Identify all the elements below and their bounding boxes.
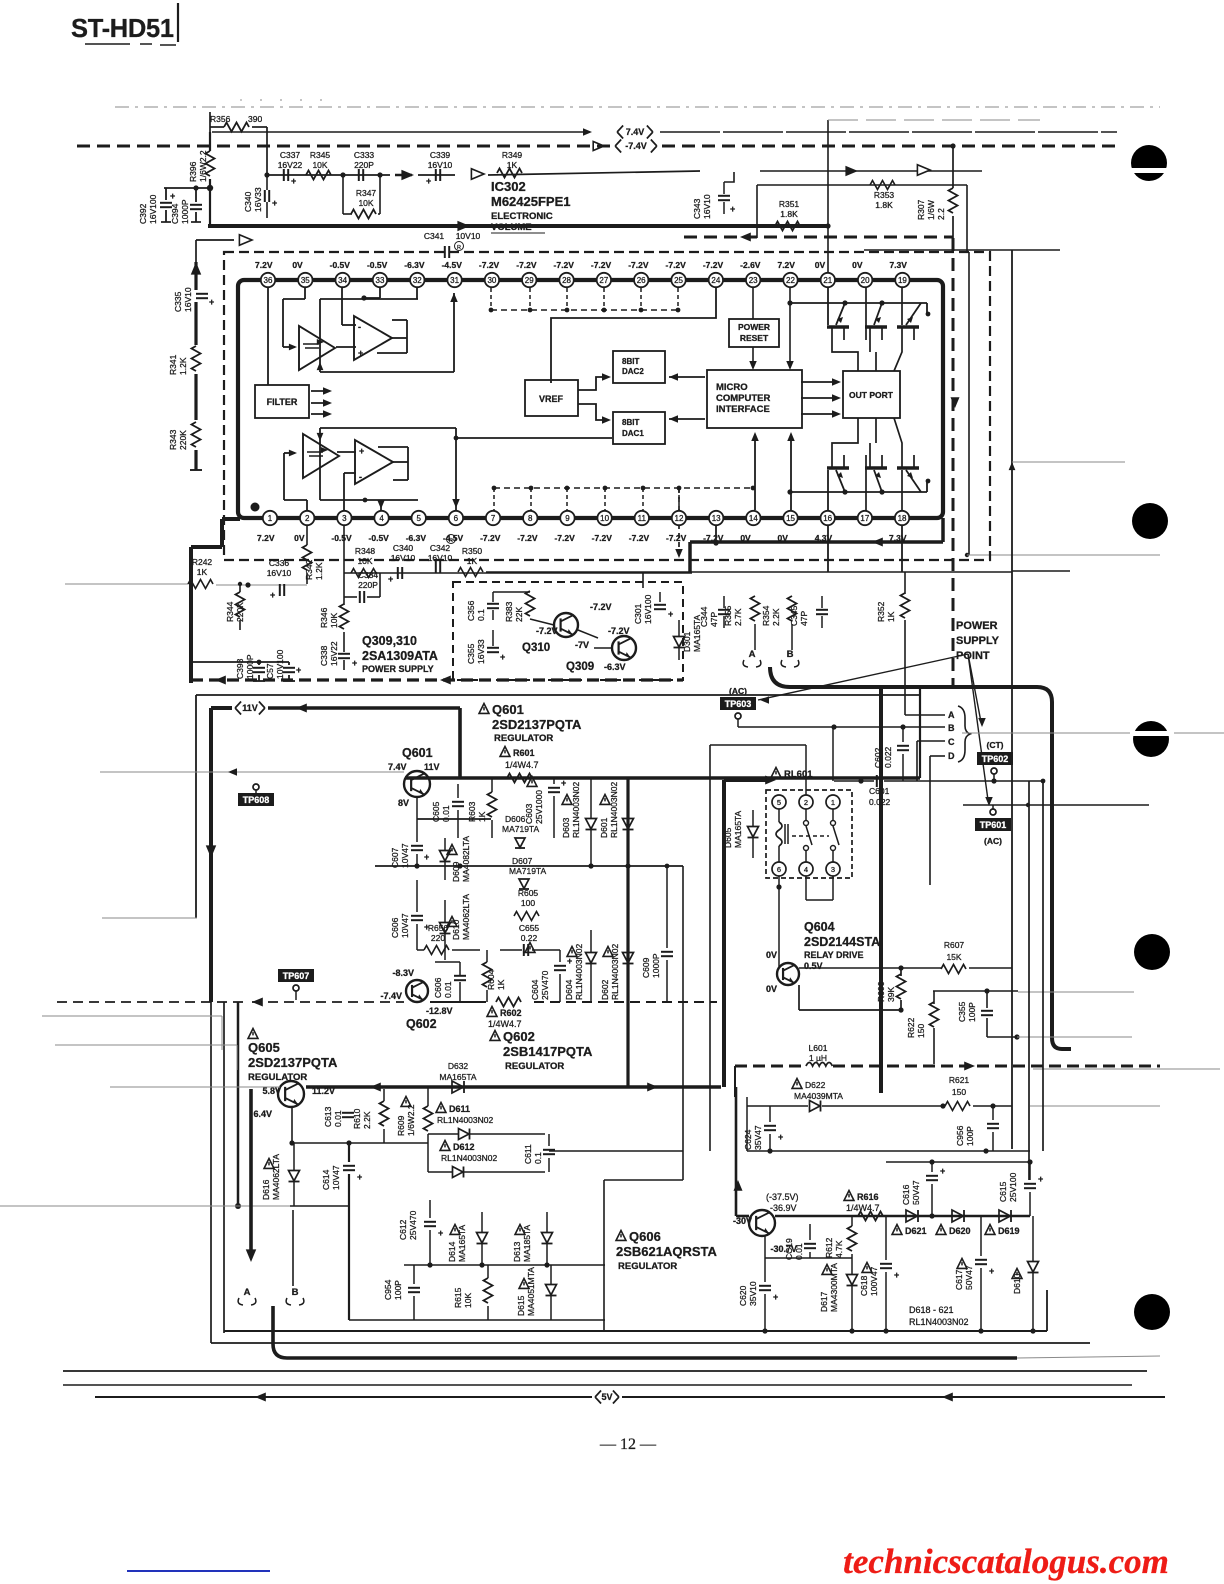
svg-text:FILTER: FILTER	[267, 397, 298, 407]
svg-text:R352: R352	[876, 601, 886, 622]
svg-text:-7.2V: -7.2V	[554, 533, 575, 543]
diode D601 RL1N4003N02	[600, 795, 610, 805]
wire DAC to MICRO	[669, 376, 705, 378]
wire VREF riser	[551, 287, 716, 383]
svg-text:-2.6V: -2.6V	[740, 260, 761, 270]
svg-text:R343: R343	[168, 429, 178, 450]
svg-text:R621: R621	[949, 1075, 970, 1085]
svg-text:390: 390	[248, 114, 262, 124]
registration mark	[1131, 145, 1167, 181]
svg-text:(-37.5V): (-37.5V)	[766, 1192, 799, 1202]
svg-text:C614: C614	[321, 1169, 331, 1190]
op-amp A2	[354, 316, 392, 360]
svg-text:0.22: 0.22	[521, 933, 538, 943]
wire pointer lines	[758, 654, 968, 700]
svg-text:2: 2	[305, 514, 310, 523]
svg-text:+: +	[894, 1270, 899, 1280]
svg-text:220: 220	[431, 933, 445, 943]
svg-text:D: D	[948, 751, 955, 761]
wire A line y715	[905, 714, 945, 716]
svg-text:ST-HD51: ST-HD51	[71, 15, 174, 43]
svg-text:-36.9V: -36.9V	[770, 1203, 797, 1213]
svg-text:B: B	[948, 723, 955, 733]
svg-text:R610: R610	[352, 1108, 362, 1129]
svg-text:100P: 100P	[965, 1126, 975, 1146]
svg-text:technicscatalogus.com: technicscatalogus.com	[843, 1542, 1169, 1581]
resistor R609 1/6W2.2	[401, 1097, 411, 1107]
svg-text:C334: C334	[358, 570, 379, 580]
svg-text:-7.2V: -7.2V	[590, 602, 612, 612]
svg-text:D606: D606	[505, 814, 526, 824]
diode D611 RL1N4003N02	[436, 1103, 446, 1113]
svg-text:19: 19	[898, 276, 907, 285]
pin 30	[485, 273, 499, 287]
flag 5V	[595, 1391, 601, 1404]
testpoint TP601	[990, 809, 996, 815]
pin 5 R mark	[447, 535, 456, 544]
svg-text:2SD2144STA: 2SD2144STA	[804, 935, 880, 949]
svg-text:C355: C355	[466, 643, 476, 664]
svg-text:1 µH: 1 µH	[809, 1053, 827, 1063]
svg-text:A: A	[749, 649, 756, 660]
svg-text:D621: D621	[905, 1226, 927, 1236]
pin 7	[486, 511, 500, 525]
svg-text:35V10: 35V10	[748, 1281, 758, 1306]
svg-text:C620: C620	[738, 1285, 748, 1306]
svg-text:0V: 0V	[294, 533, 305, 543]
svg-text:POWER: POWER	[738, 322, 770, 332]
svg-text:SUPPLY: SUPPLY	[956, 635, 1000, 647]
svg-text:50V47: 50V47	[911, 1180, 921, 1205]
pin 21	[821, 273, 835, 287]
transistor trio top	[790, 302, 927, 304]
svg-text:25V1000: 25V1000	[534, 790, 544, 824]
svg-text:+: +	[270, 590, 275, 600]
wire open arrow row2	[239, 235, 252, 246]
wire left bold rail upper	[209, 132, 211, 151]
svg-text:32: 32	[413, 276, 422, 285]
wire bold y778	[405, 776, 920, 780]
capacitor C604 25V470	[525, 943, 535, 953]
svg-text:1000P: 1000P	[651, 953, 661, 978]
svg-text:D611: D611	[449, 1104, 470, 1114]
svg-text:C344: C344	[699, 606, 709, 627]
wire bottom y1331	[224, 1330, 1047, 1332]
op-amp A1 variable	[299, 326, 335, 370]
svg-text:MA4039MTA: MA4039MTA	[794, 1091, 843, 1101]
svg-text:0V: 0V	[852, 260, 863, 270]
svg-text:D616: D616	[261, 1179, 271, 1200]
svg-text:Q601: Q601	[402, 746, 433, 760]
resistor R347 10K loop	[342, 175, 344, 214]
svg-text:+: +	[358, 348, 363, 358]
svg-text:2SB1417PQTA: 2SB1417PQTA	[503, 1044, 593, 1059]
svg-text:-7.2V: -7.2V	[591, 260, 612, 270]
svg-text:5: 5	[416, 514, 421, 523]
svg-text:D622: D622	[805, 1080, 826, 1090]
pin 35	[298, 273, 312, 287]
svg-text:16V10: 16V10	[702, 194, 712, 219]
svg-text:47P: 47P	[709, 612, 719, 627]
svg-text:+: +	[1038, 1174, 1043, 1184]
svg-text:25: 25	[674, 276, 683, 285]
svg-text:+: +	[359, 446, 364, 456]
svg-text:7.3V: 7.3V	[889, 260, 907, 270]
svg-text:22: 22	[786, 276, 795, 285]
pin 5	[412, 511, 426, 525]
svg-text:-7.2V: -7.2V	[703, 533, 724, 543]
svg-text:7: 7	[491, 514, 496, 523]
wire y991	[933, 990, 1018, 992]
svg-text:R348: R348	[355, 546, 376, 556]
wire left bold rail x191	[189, 547, 193, 683]
diode D615 MA4051MTA	[519, 1279, 529, 1289]
wire right rail x1012	[1011, 250, 1013, 1149]
svg-text:100V47: 100V47	[869, 1266, 879, 1296]
wire dashed bold y237	[684, 236, 953, 239]
svg-text:1K: 1K	[197, 567, 208, 577]
svg-text:D604: D604	[564, 979, 574, 1000]
wire relay bottom	[778, 876, 780, 887]
pin 2	[300, 511, 314, 525]
pin 29	[522, 273, 536, 287]
wire R356 to component row	[266, 127, 268, 175]
svg-text:ELECTRONIC: ELECTRONIC	[491, 211, 553, 222]
svg-text:16V100: 16V100	[643, 594, 653, 624]
registration mark	[1133, 721, 1169, 757]
svg-text:1.2K: 1.2K	[314, 562, 324, 580]
diode D621	[906, 1210, 917, 1222]
wire relay pin1 up	[832, 727, 834, 781]
svg-text:2SD2137PQTA: 2SD2137PQTA	[492, 717, 582, 732]
svg-text:16V10: 16V10	[267, 568, 292, 578]
wire bottom y1343	[211, 1342, 1090, 1344]
wire bottom feedback loop	[320, 427, 456, 429]
svg-text:R347: R347	[356, 188, 377, 198]
svg-text:15K: 15K	[946, 952, 961, 962]
svg-text:D601: D601	[599, 817, 609, 838]
svg-text:REGULATOR: REGULATOR	[494, 733, 553, 744]
svg-text:1000P: 1000P	[180, 199, 190, 224]
svg-text:C340: C340	[393, 543, 414, 553]
svg-text:25V100: 25V100	[1008, 1172, 1018, 1202]
svg-text:POWER SUPPLY: POWER SUPPLY	[362, 664, 434, 674]
Q605 inner box	[348, 1200, 350, 1320]
wire rail x224	[223, 1002, 225, 1333]
diode D617 MA4300MTA	[822, 1265, 832, 1275]
svg-text:16: 16	[823, 514, 832, 523]
svg-text:7.2V: 7.2V	[777, 260, 795, 270]
svg-text:R350: R350	[462, 546, 483, 556]
svg-text:Q604: Q604	[804, 920, 835, 934]
svg-text:0V: 0V	[778, 533, 789, 543]
svg-text:10K: 10K	[358, 198, 373, 208]
resistor R616 1/4W4.7	[844, 1191, 854, 1201]
wire dashed bottom power	[191, 678, 683, 681]
wire y1265	[404, 1264, 605, 1266]
svg-text:C956: C956	[955, 1125, 965, 1146]
svg-text:R656: R656	[428, 923, 449, 933]
svg-text:-7.2V: -7.2V	[517, 533, 538, 543]
svg-text:3: 3	[342, 514, 347, 523]
svg-text:0.01: 0.01	[333, 1110, 343, 1127]
svg-text:Q605: Q605	[248, 1040, 280, 1055]
svg-text:R344: R344	[225, 601, 235, 622]
wire bold rail y=226	[208, 224, 827, 228]
wire dashed row y1002	[57, 1001, 244, 1003]
svg-text:R345: R345	[310, 150, 331, 160]
svg-text:RL1N4003N02: RL1N4003N02	[609, 781, 619, 838]
svg-text:+: +	[778, 1132, 783, 1142]
wire to DAC1 from opamp	[456, 437, 612, 439]
svg-text:1/4W4.7: 1/4W4.7	[488, 1019, 522, 1029]
pin 33	[373, 273, 387, 287]
svg-text:2.2K: 2.2K	[362, 1111, 372, 1129]
svg-text:R602: R602	[500, 1008, 522, 1018]
svg-text:1/4W4.7: 1/4W4.7	[846, 1203, 880, 1213]
svg-text:-4.5V: -4.5V	[443, 533, 464, 543]
pin 3	[337, 511, 351, 525]
diode D612 RL1N4003N02	[440, 1141, 450, 1151]
Q605 2SD2137PQTA title	[248, 1029, 258, 1039]
svg-text:C343: C343	[692, 198, 702, 219]
pin 10	[597, 511, 611, 525]
svg-text:MA4082LTA: MA4082LTA	[461, 836, 471, 882]
FILTER box	[255, 385, 309, 418]
wire inner verticals ic	[640, 288, 642, 310]
svg-text:-7.2V: -7.2V	[703, 260, 724, 270]
svg-text:24: 24	[711, 276, 720, 285]
svg-text:IC302: IC302	[491, 179, 526, 194]
svg-text:RELAY DRIVE: RELAY DRIVE	[804, 950, 864, 960]
svg-text:7.4V: 7.4V	[388, 762, 407, 772]
svg-text:30: 30	[487, 276, 496, 285]
resistor R601 1/4W4.7	[500, 747, 510, 757]
svg-text:M62425FPE1: M62425FPE1	[491, 194, 571, 209]
svg-text:MA719TA: MA719TA	[509, 866, 546, 876]
svg-text:2SB621AQRSTA: 2SB621AQRSTA	[616, 1244, 718, 1259]
wire right top corner	[864, 249, 1060, 251]
svg-text:6: 6	[454, 514, 459, 523]
svg-text:+: +	[291, 176, 296, 186]
svg-text:9: 9	[565, 514, 570, 523]
svg-text:+: +	[209, 297, 214, 307]
wire bold left rail x211	[209, 708, 213, 1002]
wire pin16 drop	[827, 526, 829, 572]
svg-text:+: +	[352, 658, 357, 668]
wire A/B to bold bottom	[273, 1306, 1017, 1358]
wire gray y805	[963, 804, 1149, 806]
wire pin14 riser	[754, 436, 756, 510]
svg-text:1/4W4.7: 1/4W4.7	[505, 760, 539, 770]
svg-text:+: +	[296, 665, 301, 675]
pin 19	[895, 273, 909, 287]
svg-text:C607: C607	[390, 847, 400, 868]
wire Q606 left step	[549, 1150, 683, 1152]
svg-text:C606: C606	[390, 917, 400, 938]
svg-text:-0.5V: -0.5V	[367, 260, 388, 270]
svg-text:D301: D301	[682, 631, 692, 652]
svg-text:C355: C355	[957, 1001, 967, 1022]
svg-text:10V47: 10V47	[331, 1165, 341, 1190]
wire top faint rail	[115, 106, 1160, 108]
svg-text:29: 29	[525, 276, 534, 285]
pin 1	[263, 511, 277, 525]
VREF box	[525, 380, 578, 416]
svg-text:1/6W: 1/6W	[926, 200, 936, 220]
svg-text:RL1N4003N02: RL1N4003N02	[909, 1317, 969, 1327]
wire bold rail to A	[249, 1089, 253, 1250]
svg-text:-7.2V: -7.2V	[608, 626, 630, 636]
wire pin22 to MICRO	[789, 287, 791, 303]
svg-text:DAC2: DAC2	[622, 367, 644, 376]
pin 25	[671, 273, 685, 287]
svg-text:+: +	[500, 652, 505, 662]
svg-text:C335: C335	[173, 291, 183, 312]
svg-text:-7.2V: -7.2V	[628, 260, 649, 270]
capacitor C334 220P loop	[343, 573, 345, 597]
wire MICRO to OUT PORT arrows	[801, 381, 838, 383]
svg-text:0V: 0V	[766, 984, 777, 994]
svg-text:(AC): (AC)	[984, 836, 1002, 846]
svg-text:D618 - 621: D618 - 621	[909, 1305, 954, 1315]
flag -7.4V	[615, 140, 621, 153]
svg-text:RL1N4003N02: RL1N4003N02	[574, 943, 584, 1000]
wire C line y741	[917, 740, 945, 742]
svg-text:5: 5	[777, 798, 781, 807]
pin 24	[709, 273, 723, 287]
svg-text:7.4V: 7.4V	[626, 127, 645, 137]
svg-text:R346: R346	[319, 607, 329, 628]
svg-text:+: +	[438, 1228, 443, 1238]
wire y1162	[886, 1161, 1030, 1163]
svg-text:8BIT: 8BIT	[622, 418, 639, 427]
diode D616 MA4062LTA	[264, 1159, 274, 1169]
svg-text:1.8K: 1.8K	[780, 209, 798, 219]
svg-text:+: +	[989, 1266, 994, 1276]
regulator outer box	[196, 694, 920, 696]
resistor R602 1/4W4.7	[496, 998, 521, 1007]
wire bold y1087	[306, 1085, 721, 1089]
wire y1010	[798, 985, 800, 1010]
pin 15	[783, 511, 797, 525]
svg-text:POWER: POWER	[956, 620, 998, 632]
svg-text:16V33: 16V33	[253, 187, 263, 212]
svg-text:C603: C603	[524, 803, 534, 824]
svg-text:C624: C624	[743, 1129, 753, 1150]
Q601 2SD2137PQTA title	[479, 704, 489, 714]
Q602 2SB1417PQTA title	[490, 1031, 500, 1041]
wire B line y727	[738, 726, 945, 728]
svg-text:+: +	[668, 609, 673, 619]
svg-text:31: 31	[450, 276, 459, 285]
svg-text:-0.5V: -0.5V	[330, 260, 351, 270]
wire B riser	[292, 1210, 294, 1286]
svg-text:100P: 100P	[967, 1002, 977, 1022]
svg-text:-7.4V: -7.4V	[625, 141, 647, 151]
svg-text:R353: R353	[874, 190, 895, 200]
svg-text:0.1: 0.1	[476, 609, 486, 621]
svg-text:6.4V: 6.4V	[253, 1109, 272, 1119]
svg-text:Q602: Q602	[503, 1029, 535, 1044]
svg-text:25V470: 25V470	[408, 1210, 418, 1240]
wire y1151	[747, 1150, 1030, 1152]
svg-text:C611: C611	[523, 1144, 533, 1164]
pin 23	[746, 273, 760, 287]
svg-text:D602: D602	[600, 979, 610, 1000]
wire POWER RESET to MICRO	[752, 347, 754, 366]
wire bottom y1385	[63, 1384, 1132, 1386]
wire 11V bold	[211, 706, 232, 710]
pin 28	[559, 273, 573, 287]
8BIT DAC2 box	[613, 351, 665, 383]
wire bold x628 lower	[626, 866, 629, 1087]
wire pin1 staircase	[222, 517, 240, 521]
capacitor C603 25V1000	[527, 777, 537, 787]
diode D613 MA185TA	[515, 1225, 525, 1235]
capacitor C618 100V47	[862, 1263, 872, 1273]
svg-text:C618: C618	[859, 1275, 869, 1296]
8BIT DAC1 box	[613, 412, 665, 444]
svg-text:D612: D612	[453, 1142, 475, 1152]
svg-text:— 12 —: — 12 —	[599, 1436, 657, 1453]
svg-text:R601: R601	[513, 748, 535, 758]
svg-text:D620: D620	[949, 1226, 971, 1236]
svg-text:220K: 220K	[178, 430, 188, 450]
svg-text:0.5V: 0.5V	[804, 961, 823, 971]
svg-text:2SA1309ATA: 2SA1309ATA	[362, 649, 438, 663]
svg-text:MICRO: MICRO	[716, 382, 748, 393]
svg-text:+: +	[773, 1292, 778, 1302]
svg-text:B: B	[292, 1287, 299, 1298]
svg-text:3: 3	[831, 865, 835, 874]
wire pin15 riser	[790, 436, 792, 510]
op-amp B2 feedback box	[393, 461, 408, 463]
svg-text:33: 33	[376, 276, 385, 285]
svg-text:VREF: VREF	[539, 394, 564, 404]
wire y1258	[765, 1257, 852, 1259]
svg-text:11V: 11V	[424, 762, 440, 772]
svg-text:1/6W2.2: 1/6W2.2	[406, 1104, 416, 1136]
svg-text:11: 11	[638, 514, 647, 523]
svg-text:4.3V: 4.3V	[815, 533, 833, 543]
wire bold x724	[722, 780, 726, 1087]
wire bold rail x238	[237, 1002, 240, 1206]
svg-text:-12.8V: -12.8V	[426, 1006, 453, 1016]
svg-text:R615: R615	[453, 1287, 463, 1308]
svg-text:-7.2V: -7.2V	[666, 260, 687, 270]
svg-text:D610: D610	[1012, 1273, 1022, 1294]
svg-text:4.7K: 4.7K	[834, 1240, 844, 1258]
svg-text:R351: R351	[779, 199, 800, 209]
testpoint TP608	[253, 784, 259, 790]
svg-text:OUT PORT: OUT PORT	[849, 390, 894, 400]
svg-text:D632: D632	[448, 1061, 469, 1071]
svg-text:D615: D615	[516, 1295, 526, 1316]
flag 7.4V	[617, 126, 623, 139]
op-amp B2	[355, 440, 393, 484]
svg-text:-: -	[358, 322, 361, 332]
svg-text:+: +	[424, 852, 429, 862]
svg-text:A: A	[244, 1287, 251, 1298]
svg-text:-7.2V: -7.2V	[666, 533, 687, 543]
svg-text:16V22: 16V22	[278, 160, 303, 170]
IC302 bold body	[238, 280, 943, 518]
wire op-amp top connections	[304, 287, 306, 299]
svg-text:TP608: TP608	[243, 795, 270, 805]
wire Q605 emitter	[291, 1107, 293, 1143]
svg-text:150: 150	[952, 1087, 966, 1097]
